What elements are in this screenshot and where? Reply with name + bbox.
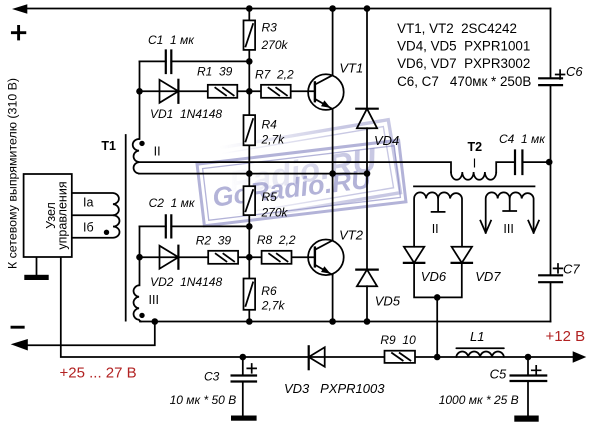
- watermark stamp 1 (GoRadio.RU): [197, 140, 406, 226]
- ground bar: C3: [231, 416, 257, 421]
- polarity dot: T1 winding Ib: [104, 230, 109, 235]
- plus / minus terminal marks: [12, 27, 25, 328]
- ground bar: C5: [514, 416, 538, 422]
- wire: VT1 emitter to midpoint: [332, 109, 334, 174]
- plus at C3: [247, 364, 256, 373]
- ground bar: control unit: [24, 275, 48, 280]
- terminal arrow +12V output: [573, 351, 587, 363]
- svg-text:10 мк * 50 В: 10 мк * 50 В: [170, 393, 237, 407]
- junction: C2-VD2 left node: [136, 254, 143, 261]
- wire: right rail: [550, 9, 552, 322]
- plus at C6: [556, 70, 565, 79]
- junction: R1-R7-R4 node: [246, 88, 253, 95]
- wire: C1/VD1 left node: [139, 61, 141, 139]
- terminal arrow top left (+310V): [12, 4, 27, 13]
- label: + input: [12, 27, 24, 39]
- winding III output arrow left: [480, 221, 491, 233]
- wire: C3 leads: [242, 357, 244, 416]
- transformer T1 winding Ib: [72, 215, 120, 237]
- terminal arrow bottom left (-310V): [11, 339, 28, 351]
- junction: C3 top on output bus: [240, 354, 247, 361]
- svg-text:I: I: [473, 157, 476, 171]
- svg-text:C3: C3: [204, 370, 220, 384]
- svg-text:1000 мк * 25 В: 1000 мк * 25 В: [439, 393, 519, 407]
- wire: C2/VD2 left node: [139, 226, 141, 285]
- transformer T1 winding III: [134, 285, 142, 321]
- junction: VT1 collector on +310V bus: [329, 5, 336, 12]
- resistor R6: [244, 279, 256, 310]
- plus at C7: [554, 264, 563, 273]
- resistor R4: [244, 115, 256, 145]
- svg-text:2,7k: 2,7k: [261, 132, 286, 146]
- transformer T2 winding III: [486, 192, 534, 232]
- svg-text:+12 В: +12 В: [546, 328, 586, 345]
- wire: C5 leads: [527, 357, 529, 416]
- svg-text:270k: 270k: [261, 38, 289, 52]
- junction: VT1 emitter / VT2 collector midpoint: [329, 170, 336, 177]
- svg-text:VT1: VT1: [339, 61, 363, 76]
- junction: VT2 emitter on bottom bus: [329, 318, 336, 325]
- wire: VD1 row: [140, 90, 315, 92]
- wire: VD5 branch: [366, 174, 368, 322]
- junction: VD4 cathode on +310V bus: [364, 5, 371, 12]
- wire: VD4 branch: [366, 9, 368, 174]
- wire: C2 row: [140, 225, 250, 227]
- svg-text:II: II: [432, 222, 439, 236]
- junction: rectifier riser on output bus: [434, 354, 441, 361]
- diode VD7: [452, 247, 472, 263]
- diode VD3: [309, 347, 325, 366]
- svg-text:VD1 1N4148: VD1 1N4148: [150, 107, 222, 121]
- resistor R8: [262, 251, 292, 264]
- svg-text:T1: T1: [101, 139, 116, 153]
- junction: C1 right / R3 bottom node: [246, 58, 253, 65]
- svg-text:R7 2,2: R7 2,2: [255, 68, 294, 82]
- svg-text:VD6: VD6: [421, 269, 447, 284]
- svg-text:R5: R5: [262, 190, 278, 204]
- junction: C2 right / R5 bottom node: [246, 223, 253, 230]
- junction: VD6-VD7 cathodes: [434, 294, 441, 301]
- resistor R7: [261, 85, 291, 98]
- svg-text:VD7: VD7: [475, 269, 501, 284]
- svg-text:III: III: [503, 222, 513, 236]
- junction: C4 output on right rail: [546, 159, 553, 166]
- wire: VD6-VD7 cathode connector: [414, 263, 462, 298]
- capacitor C3: [232, 376, 256, 382]
- resistor R1: [208, 85, 238, 98]
- svg-text:+25 ... 27 В: +25 ... 27 В: [60, 365, 137, 382]
- svg-text:C4 1 мк: C4 1 мк: [499, 132, 546, 146]
- wire: mid line to T2 primary: [139, 162, 451, 172]
- transformer T1 winding II: [133, 139, 139, 174]
- resistor R9: [385, 351, 416, 363]
- svg-text:управления: управления: [56, 181, 70, 249]
- junction: R4-R5 midpoint node: [246, 170, 253, 177]
- transistor VT1: [308, 74, 344, 110]
- svg-text:VT1, VT2 2SC4242: VT1, VT2 2SC4242: [397, 21, 517, 36]
- wire: mid line 2 (midpoint node): [139, 173, 367, 175]
- transformer T2 winding III centre tap: [503, 199, 516, 212]
- diode VD5: [357, 270, 377, 287]
- resistor R2: [208, 251, 238, 264]
- svg-text:C6: C6: [566, 64, 583, 79]
- wire: output bus with control-unit drop: [61, 257, 573, 357]
- svg-text:III: III: [149, 293, 159, 307]
- resistor R5: [244, 186, 256, 215]
- transformer T2 winding II centre tap: [432, 199, 445, 212]
- junction: VD4-VD5 midpoint: [364, 170, 371, 177]
- plus at C5: [532, 366, 541, 375]
- winding III output arrow right: [528, 221, 539, 233]
- wire: VT2 emitter to bottom bus: [332, 275, 334, 322]
- transistor VT2 emitter arrowhead: [321, 266, 331, 274]
- inductor L1: [456, 348, 504, 357]
- diode VD6: [404, 247, 424, 263]
- svg-text:C6, C7 470мк * 250В: C6, C7 470мк * 250В: [397, 74, 531, 89]
- svg-text:II: II: [154, 144, 161, 158]
- transistor VT2: [308, 239, 344, 275]
- wire: VT2 collector from midpoint: [332, 174, 334, 241]
- svg-text:VD3 PXPR1003: VD3 PXPR1003: [284, 381, 385, 396]
- capacitor C2: [166, 215, 172, 237]
- wire: T2 primary exit to C4: [496, 162, 550, 172]
- wire: central divider column: [248, 9, 250, 322]
- svg-text:2,7k: 2,7k: [261, 299, 286, 313]
- capacitor C1: [166, 51, 172, 74]
- svg-text:Ia: Ia: [83, 196, 93, 210]
- svg-text:C7: C7: [563, 262, 580, 277]
- svg-text:R8 2,2: R8 2,2: [257, 233, 296, 247]
- capacitor C6: [539, 78, 562, 85]
- junction: R2-R8-R6 node: [246, 254, 253, 261]
- svg-text:R3: R3: [262, 21, 278, 35]
- wire: VT1 collector: [332, 9, 334, 76]
- transformer T2 core: [414, 185, 535, 187]
- diode VD4: [357, 109, 377, 129]
- control unit text: [44, 181, 70, 249]
- polarity dot: T1 winding III: [139, 313, 144, 318]
- wire: control unit ground lead: [36, 257, 38, 275]
- svg-text:VD4: VD4: [374, 133, 399, 148]
- capacitor C5: [511, 376, 547, 382]
- svg-text:C1 1 мк: C1 1 мк: [148, 33, 195, 47]
- svg-text:VD5: VD5: [375, 294, 401, 309]
- control unit box: [24, 174, 72, 257]
- svg-text:C5: C5: [490, 366, 507, 381]
- capacitor C4: [515, 151, 522, 175]
- transformer T2 winding II: [414, 192, 462, 246]
- polarity plus marks at capacitors: [247, 70, 564, 375]
- wire: C1 row: [140, 60, 250, 62]
- wire: VD2 row: [140, 256, 315, 258]
- transformer T1 core: [125, 135, 127, 321]
- resistor R3: [244, 20, 256, 50]
- junction: C1-VD1 left node: [136, 88, 143, 95]
- capacitor C7: [539, 275, 562, 282]
- junction: R6 bottom on bottom bus: [246, 318, 253, 325]
- transistor VT1 emitter arrowhead: [321, 100, 331, 108]
- svg-text:R2 39: R2 39: [196, 233, 232, 247]
- svg-text:VD4, VD5 PXPR1001: VD4, VD5 PXPR1001: [397, 39, 530, 54]
- diode VD1: [160, 80, 179, 103]
- svg-text:L1: L1: [470, 329, 484, 344]
- svg-text:T2: T2: [468, 140, 483, 154]
- junction: minus wire riser on bottom bus: [152, 318, 159, 325]
- svg-text:К сетевому выпрямителю (310 В): К сетевому выпрямителю (310 В): [6, 78, 20, 269]
- wire: bottom bus (emitter/common): [140, 321, 551, 323]
- svg-text:R6: R6: [261, 284, 277, 298]
- junction: VD5 anode on bottom bus: [364, 318, 371, 325]
- transformer T1 winding Ia: [72, 193, 119, 215]
- wire: rectifier output riser: [436, 297, 438, 357]
- wire: top bus: [27, 8, 551, 10]
- svg-text:VD6, VD7 PXPR3002: VD6, VD7 PXPR3002: [397, 56, 530, 71]
- svg-text:R4: R4: [262, 117, 278, 131]
- svg-text:VT2: VT2: [339, 227, 364, 242]
- svg-text:R9 10: R9 10: [380, 333, 416, 347]
- polarity dot: T1 winding II: [139, 141, 144, 146]
- junction: R3 top on +310V bus: [246, 5, 253, 12]
- svg-text:Iб: Iб: [83, 221, 94, 235]
- wire: minus arrow wire to T1-III: [28, 322, 155, 346]
- svg-text:C2 1 мк: C2 1 мк: [149, 196, 196, 210]
- svg-text:VD2 1N4148: VD2 1N4148: [150, 275, 222, 289]
- svg-text:270k: 270k: [261, 206, 289, 220]
- diode VD2: [160, 246, 179, 269]
- junction: C5 top on output bus: [525, 354, 532, 361]
- svg-text:R1 39: R1 39: [197, 65, 233, 79]
- label: - input: [12, 326, 23, 329]
- transformer T2 primary winding I: [451, 172, 496, 180]
